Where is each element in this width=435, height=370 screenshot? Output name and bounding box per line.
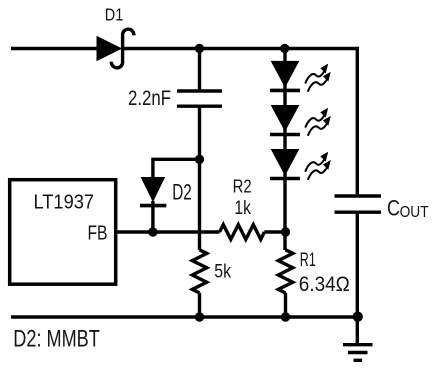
LED 2 (middle) <box>270 106 331 136</box>
svg-text:R1: R1 <box>300 250 316 271</box>
node junction top of 2.2nF branch <box>195 44 204 53</box>
svg-text:FB: FB <box>88 222 108 244</box>
wire 2.2nF top lead <box>198 49 201 91</box>
svg-text:D1: D1 <box>105 5 124 25</box>
wire COUT bottom lead to ground rail <box>356 213 359 318</box>
LED 1 (top) <box>270 61 331 91</box>
svg-text:C: C <box>387 195 400 220</box>
diode D2 <box>140 178 166 206</box>
wire 2.2nF bottom lead through FB line to 5k top <box>198 107 201 251</box>
node junction D2 branch <box>195 155 204 164</box>
ground symbol <box>343 317 373 360</box>
capacitor 2.2nF <box>177 91 222 106</box>
resistor R2 <box>220 225 265 240</box>
resistor R1 <box>278 250 293 293</box>
diode D1 Schottky <box>97 29 134 68</box>
wire branch from node to D2 anode <box>153 159 200 177</box>
capacitor COUT <box>335 196 382 212</box>
box LT1937 <box>10 180 116 285</box>
svg-text:5k: 5k <box>214 261 231 283</box>
node junction rail / 5k <box>195 312 204 321</box>
wire D2 cathode to FB line <box>151 201 154 232</box>
svg-text:1k: 1k <box>234 198 251 219</box>
wire 5k bottom to ground rail <box>198 293 201 317</box>
node junction rail / COUT / ground <box>353 312 363 322</box>
svg-text:D2: D2 <box>172 179 192 204</box>
node junction top of LED branch <box>280 44 289 53</box>
wire input to D1 anode <box>11 47 98 50</box>
wire D1 cathode to top-right corner down to COUT top <box>124 49 357 195</box>
wire R2 right to FB node <box>264 230 285 233</box>
wire R1 bottom to ground rail <box>284 293 287 317</box>
svg-text:2.2nF: 2.2nF <box>128 87 171 110</box>
wire LED chain vertical <box>283 49 286 251</box>
svg-text:LT1937: LT1937 <box>34 192 95 214</box>
node junction FB / D2 cathode <box>148 227 157 236</box>
LED 3 (bottom) <box>270 150 331 180</box>
resistor 5k <box>192 250 207 293</box>
wire ground rail <box>11 315 358 318</box>
node junction FB / R2 / LED / R1 <box>281 227 290 236</box>
svg-text:6.34Ω: 6.34Ω <box>299 272 350 296</box>
svg-text:D2: MMBT: D2: MMBT <box>13 326 100 353</box>
wire FB pin from LT1937 to R2 <box>116 230 220 233</box>
node junction rail / R1 <box>281 312 290 321</box>
svg-text:OUT: OUT <box>400 204 429 221</box>
svg-text:R2: R2 <box>233 175 252 196</box>
